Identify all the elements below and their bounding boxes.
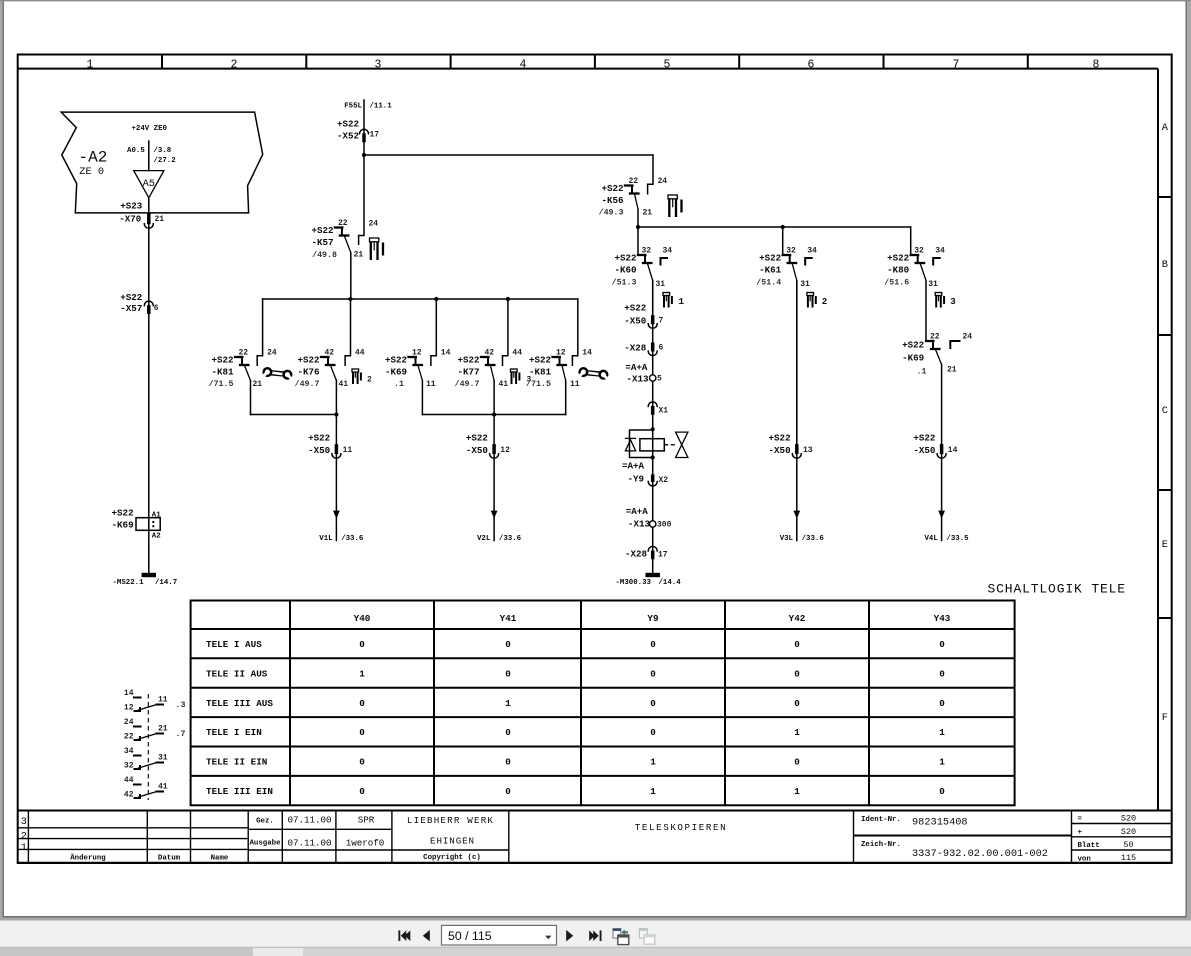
svg-text:07.11.00: 07.11.00 xyxy=(287,838,331,849)
svg-text:/49.3: /49.3 xyxy=(599,208,624,218)
svg-text:-X57: -X57 xyxy=(120,303,142,314)
svg-text:42: 42 xyxy=(124,791,134,800)
contact K57 xyxy=(311,155,378,299)
svg-text:0: 0 xyxy=(505,757,511,768)
svg-text:0: 0 xyxy=(359,757,365,768)
connector X70 pin 21 (+S23) xyxy=(119,201,164,229)
svg-text:-K69: -K69 xyxy=(385,367,407,378)
wire output leg V2L xyxy=(493,415,495,541)
svg-text:21: 21 xyxy=(253,380,263,389)
svg-text:/33.6: /33.6 xyxy=(499,535,522,543)
svg-text:41: 41 xyxy=(158,783,168,792)
svg-text:0: 0 xyxy=(359,698,365,709)
svg-text:21: 21 xyxy=(155,215,165,224)
wire output leg V3L xyxy=(796,281,798,541)
svg-text:0: 0 xyxy=(794,639,800,650)
svg-text:Zeich-Nr.: Zeich-Nr. xyxy=(861,841,901,849)
svg-text:-X50: -X50 xyxy=(308,445,330,456)
svg-text:+S22: +S22 xyxy=(759,253,781,264)
svg-text:Y42: Y42 xyxy=(789,613,806,624)
svg-text:44: 44 xyxy=(124,776,134,785)
svg-text:0: 0 xyxy=(939,639,945,650)
svg-text:11: 11 xyxy=(158,696,168,705)
svg-text:+S22: +S22 xyxy=(466,432,488,443)
svg-text:-K69: -K69 xyxy=(112,519,134,530)
svg-text:+S22: +S22 xyxy=(311,225,333,236)
signal arrow V3L xyxy=(780,511,825,543)
svg-text:31: 31 xyxy=(928,280,938,289)
svg-text:/3.8: /3.8 xyxy=(154,147,172,155)
junction node xyxy=(334,412,338,416)
svg-text:-K80: -K80 xyxy=(887,265,909,276)
svg-text:42: 42 xyxy=(485,349,495,358)
svg-text:14: 14 xyxy=(124,689,134,698)
svg-text:-K81: -K81 xyxy=(529,367,552,378)
svg-text:21: 21 xyxy=(947,366,957,375)
wire through coil K69 xyxy=(148,518,150,531)
taskbar strip xyxy=(0,948,1191,956)
svg-text:34: 34 xyxy=(935,247,945,256)
svg-text:TELE I EIN: TELE I EIN xyxy=(206,727,262,738)
junction node xyxy=(434,297,438,301)
svg-text:6: 6 xyxy=(154,304,159,313)
svg-text:/33.6: /33.6 xyxy=(341,535,364,543)
junction node xyxy=(362,153,366,157)
svg-text:21: 21 xyxy=(643,209,653,218)
contact K69 row xyxy=(385,299,451,415)
svg-text:2: 2 xyxy=(822,296,828,307)
svg-text:0: 0 xyxy=(794,668,800,679)
svg-text:0: 0 xyxy=(794,698,800,709)
svg-text:S20: S20 xyxy=(1121,814,1136,824)
svg-text:24: 24 xyxy=(658,177,668,186)
svg-text:LIEBHERR WERK: LIEBHERR WERK xyxy=(407,815,494,826)
row letters xyxy=(1162,122,1169,724)
svg-text:8: 8 xyxy=(1093,58,1100,71)
svg-text:-K57: -K57 xyxy=(311,237,333,248)
contact K56 xyxy=(599,155,668,227)
svg-text:3: 3 xyxy=(21,816,27,828)
svg-text:A5: A5 xyxy=(143,178,155,190)
svg-text:0: 0 xyxy=(794,757,800,768)
svg-text:115: 115 xyxy=(1121,853,1136,863)
svg-text:/11.1: /11.1 xyxy=(370,103,393,111)
svg-text:31: 31 xyxy=(158,754,168,763)
svg-text:Datum: Datum xyxy=(158,854,181,862)
cross-reference contact block xyxy=(124,689,186,800)
svg-text:34: 34 xyxy=(663,247,673,256)
signal arrow V1L xyxy=(319,511,364,543)
svg-text:1: 1 xyxy=(650,757,656,768)
svg-text:+S22: +S22 xyxy=(902,340,924,351)
svg-text:A: A xyxy=(1162,122,1169,134)
signal arrow V2L xyxy=(477,511,522,543)
svg-text:1: 1 xyxy=(939,757,945,768)
svg-text:Y9: Y9 xyxy=(647,613,659,624)
svg-text:+S22: +S22 xyxy=(913,432,935,443)
svg-text:22: 22 xyxy=(338,219,348,228)
solenoid coil Y9 xyxy=(640,429,664,457)
svg-text:-X50: -X50 xyxy=(466,445,488,456)
valve symbol Y9 xyxy=(664,432,688,457)
svg-text:0: 0 xyxy=(650,668,656,679)
connector X57 pin 6 (+S22) xyxy=(120,292,159,314)
svg-text:17: 17 xyxy=(370,131,380,140)
svg-text:-X50: -X50 xyxy=(624,315,646,326)
svg-text:1: 1 xyxy=(359,668,365,679)
svg-text:14: 14 xyxy=(441,349,451,358)
svg-text:+S22: +S22 xyxy=(624,302,646,313)
svg-text:31: 31 xyxy=(800,280,810,289)
svg-text:12: 12 xyxy=(556,349,566,358)
svg-text:Gez.: Gez. xyxy=(256,817,274,825)
signal arrow V4L xyxy=(924,511,969,543)
wire bus left group xyxy=(251,414,337,416)
svg-text:+S22: +S22 xyxy=(297,355,319,366)
svg-text:+24V ZE0: +24V ZE0 xyxy=(132,125,168,133)
svg-text:/71.5: /71.5 xyxy=(209,379,234,389)
svg-text:-X28: -X28 xyxy=(625,548,648,559)
svg-text:1: 1 xyxy=(679,296,685,307)
contact K77 xyxy=(455,299,523,415)
svg-text:/14.7: /14.7 xyxy=(155,579,177,587)
svg-text:A2: A2 xyxy=(152,532,161,540)
svg-text:34: 34 xyxy=(124,747,134,756)
svg-text:TELE III AUS: TELE III AUS xyxy=(206,698,273,709)
viewer toolbar xyxy=(0,918,1191,948)
svg-text:07.11.00: 07.11.00 xyxy=(287,815,331,826)
svg-text:+S22: +S22 xyxy=(614,253,636,264)
svg-text:S20: S20 xyxy=(1121,827,1136,837)
svg-text:+S22: +S22 xyxy=(337,119,359,130)
wire bus3 xyxy=(263,298,578,300)
junction node xyxy=(636,225,640,229)
logic table xyxy=(191,601,1015,806)
svg-text:300: 300 xyxy=(657,520,672,529)
svg-text:Änderung: Änderung xyxy=(70,853,106,862)
svg-text:0: 0 xyxy=(359,786,365,797)
svg-text:21: 21 xyxy=(354,251,364,260)
svg-text:+S23: +S23 xyxy=(120,201,143,212)
svg-text:1: 1 xyxy=(505,698,511,709)
svg-text:Y40: Y40 xyxy=(354,613,371,624)
svg-text:31: 31 xyxy=(656,280,666,289)
connector X28 pin 6 xyxy=(624,342,663,355)
svg-text:C: C xyxy=(1162,405,1168,417)
svg-text:32: 32 xyxy=(786,247,796,256)
last page button xyxy=(589,930,601,941)
svg-text:1: 1 xyxy=(87,58,94,71)
svg-text:0: 0 xyxy=(505,639,511,650)
svg-text:0: 0 xyxy=(939,786,945,797)
svg-text:1: 1 xyxy=(794,727,800,738)
svg-text:4: 4 xyxy=(520,58,527,71)
svg-text:A0.5: A0.5 xyxy=(127,147,145,155)
previous view button xyxy=(613,929,629,945)
first page button xyxy=(398,930,410,941)
svg-text:-M300.33: -M300.33 xyxy=(616,579,652,587)
svg-text:982315408: 982315408 xyxy=(912,816,968,828)
svg-text:Ausgabe: Ausgabe xyxy=(249,839,281,847)
svg-text:-X50: -X50 xyxy=(769,445,791,456)
svg-text:+S22: +S22 xyxy=(457,355,479,366)
svg-text:/51.6: /51.6 xyxy=(884,278,909,288)
svg-text:-X13: -X13 xyxy=(628,518,651,529)
svg-text:/49.7: /49.7 xyxy=(455,379,480,389)
ground M300.33 xyxy=(616,573,682,587)
actuator icon K57 xyxy=(370,238,384,260)
svg-text:=: = xyxy=(1078,816,1083,824)
svg-text:.3: .3 xyxy=(176,701,186,710)
svg-text:EHINGEN: EHINGEN xyxy=(430,836,475,847)
ground MS22.1 xyxy=(113,573,178,587)
svg-text:/51.4: /51.4 xyxy=(756,278,781,288)
connector X13 pin 5 (=A+A) xyxy=(625,362,662,384)
wire A5 output down left column xyxy=(148,198,150,518)
svg-text:2: 2 xyxy=(231,58,238,71)
svg-text:2: 2 xyxy=(367,376,372,385)
svg-text:TELESKOPIEREN: TELESKOPIEREN xyxy=(635,822,727,833)
connector X50 pin 14 xyxy=(913,432,957,458)
svg-text:50: 50 xyxy=(1123,840,1133,850)
svg-text:+S22: +S22 xyxy=(308,432,330,443)
connector X50 pin 11 xyxy=(308,432,352,458)
svg-text:Y43: Y43 xyxy=(934,613,951,624)
contact K60 xyxy=(612,227,673,315)
svg-text:-Y9: -Y9 xyxy=(627,474,644,485)
junction node xyxy=(651,455,655,459)
svg-text:21: 21 xyxy=(158,725,168,734)
svg-text:12: 12 xyxy=(124,704,134,713)
connector X50 pin 7 (+S22) xyxy=(624,302,663,328)
svg-text:TELE I AUS: TELE I AUS xyxy=(206,639,262,650)
svg-text:0: 0 xyxy=(939,668,945,679)
connector X28 pin 17 xyxy=(625,546,668,559)
page number combobox xyxy=(442,925,557,945)
svg-text:0: 0 xyxy=(650,698,656,709)
svg-text:11: 11 xyxy=(343,446,353,455)
wire output leg V1L xyxy=(335,415,337,541)
svg-text:3: 3 xyxy=(375,58,382,71)
svg-text:TELE III EIN: TELE III EIN xyxy=(206,786,273,797)
svg-text:von: von xyxy=(1078,855,1091,863)
svg-text:17: 17 xyxy=(658,550,668,559)
svg-text:E: E xyxy=(1162,539,1168,551)
svg-text:5: 5 xyxy=(664,58,671,71)
junction node xyxy=(781,225,785,229)
column numbers 1-8 xyxy=(87,58,1100,71)
svg-text:14: 14 xyxy=(948,446,958,455)
column header band xyxy=(18,55,1158,69)
svg-text:22: 22 xyxy=(239,349,249,358)
suppressor diode of Y9 xyxy=(625,430,653,458)
svg-text:Ident-Nr.: Ident-Nr. xyxy=(861,816,901,824)
svg-text:V1L: V1L xyxy=(319,535,333,543)
svg-text:F55L: F55L xyxy=(344,103,362,111)
svg-text:+S22: +S22 xyxy=(769,432,791,443)
svg-text:.7: .7 xyxy=(176,730,186,739)
svg-text:+S22: +S22 xyxy=(211,355,233,366)
svg-text:+S22: +S22 xyxy=(385,355,407,366)
actuator icon 1 xyxy=(663,293,685,308)
svg-text:+S22: +S22 xyxy=(112,507,134,518)
wire middle chain lower xyxy=(652,458,654,574)
svg-text:24: 24 xyxy=(267,349,277,358)
wire output leg V4L xyxy=(941,444,943,540)
PLC block A2 ZE 0 xyxy=(61,112,263,213)
relay coil K69 xyxy=(112,507,162,540)
wire middle chain upper xyxy=(652,281,654,430)
svg-text:1: 1 xyxy=(794,786,800,797)
connector X13 pin 300 (=A+A) xyxy=(626,506,672,529)
connector X50 pin 12 xyxy=(466,432,510,458)
svg-text:+: + xyxy=(1078,829,1083,837)
svg-text:24: 24 xyxy=(963,332,973,341)
svg-text:13: 13 xyxy=(803,446,813,455)
contact K80 xyxy=(884,227,945,341)
svg-text:24: 24 xyxy=(369,220,379,229)
svg-text:=A+A: =A+A xyxy=(622,461,645,472)
contact K76 xyxy=(295,299,365,415)
connector X52 pin 17 (+S22) xyxy=(337,119,379,143)
actuator icon 2 xyxy=(807,293,827,308)
junction node xyxy=(492,412,496,416)
svg-text:1werof0: 1werof0 xyxy=(346,838,385,849)
svg-text:32: 32 xyxy=(642,247,652,256)
next view button (disabled) xyxy=(639,929,654,945)
svg-text:0: 0 xyxy=(505,786,511,797)
junction node xyxy=(348,297,352,301)
svg-text:3: 3 xyxy=(950,296,956,307)
svg-text:ZE 0: ZE 0 xyxy=(79,166,104,178)
junction node xyxy=(506,297,510,301)
svg-text:0: 0 xyxy=(650,727,656,738)
svg-text:/33.6: /33.6 xyxy=(802,535,825,543)
svg-text:-K56: -K56 xyxy=(601,195,623,206)
svg-text:/27.2: /27.2 xyxy=(154,157,176,165)
svg-text:-X52: -X52 xyxy=(337,131,359,142)
svg-text:.1: .1 xyxy=(394,380,404,389)
svg-text:50 / 115: 50 / 115 xyxy=(448,929,492,943)
svg-text:32: 32 xyxy=(914,247,924,256)
svg-text:/33.5: /33.5 xyxy=(946,535,969,543)
svg-text:6: 6 xyxy=(659,343,664,352)
svg-text:11: 11 xyxy=(426,380,436,389)
svg-text:0: 0 xyxy=(505,668,511,679)
contact K81 left xyxy=(209,299,277,415)
svg-text:V4L: V4L xyxy=(924,535,938,543)
svg-text:11: 11 xyxy=(570,380,580,389)
svg-text:-MS22.1: -MS22.1 xyxy=(113,579,145,587)
title block xyxy=(18,811,1172,864)
wire coil K69 to ground xyxy=(148,530,150,573)
svg-text:-K81: -K81 xyxy=(211,367,234,378)
wire bus2 xyxy=(638,226,911,228)
svg-text:/49.7: /49.7 xyxy=(295,379,320,389)
svg-text:3337-932.02.00.001-002: 3337-932.02.00.001-002 xyxy=(912,848,1048,860)
svg-text:+S22: +S22 xyxy=(601,183,623,194)
svg-text:0: 0 xyxy=(359,727,365,738)
svg-text:-X70: -X70 xyxy=(119,214,141,225)
svg-text:V2L: V2L xyxy=(477,535,491,543)
svg-text:+S22: +S22 xyxy=(529,355,551,366)
svg-text:+S22: +S22 xyxy=(887,253,909,264)
svg-text:14: 14 xyxy=(582,349,592,358)
wire from +24V into amplifier A5 xyxy=(127,141,176,171)
svg-text:-K61: -K61 xyxy=(759,265,782,276)
svg-text:Copyright (c): Copyright (c) xyxy=(423,854,481,862)
svg-text:41: 41 xyxy=(499,380,509,389)
actuator icon K56 xyxy=(668,195,682,217)
svg-text:5: 5 xyxy=(657,375,662,384)
svg-text:41: 41 xyxy=(339,380,349,389)
wire bus1 xyxy=(364,154,653,156)
amplifier triangle A5 xyxy=(134,171,164,198)
svg-text:Name: Name xyxy=(211,854,229,862)
svg-text:22: 22 xyxy=(930,332,940,341)
svg-text:6: 6 xyxy=(808,58,815,71)
svg-text:-K76: -K76 xyxy=(297,367,319,378)
svg-text:1: 1 xyxy=(650,786,656,797)
previous page button xyxy=(423,930,430,941)
svg-text:44: 44 xyxy=(512,349,522,358)
actuator icon K76 2 xyxy=(352,369,372,385)
svg-text:2: 2 xyxy=(21,831,27,843)
svg-text:/51.3: /51.3 xyxy=(612,278,637,288)
wire bus right group xyxy=(422,414,565,416)
svg-text:Blatt: Blatt xyxy=(1078,842,1100,850)
connector Y9 X2 (=A+A) xyxy=(622,461,668,487)
contact K81 right xyxy=(526,299,592,415)
svg-text:/71.5: /71.5 xyxy=(526,379,551,389)
svg-text:Y41: Y41 xyxy=(500,613,517,624)
svg-text:TELE II AUS: TELE II AUS xyxy=(206,668,268,679)
svg-text:-K60: -K60 xyxy=(614,265,636,276)
svg-text:-A2: -A2 xyxy=(79,149,108,167)
wrench icon K81 left xyxy=(263,368,292,379)
connector X50 pin 13 xyxy=(769,432,813,458)
actuator icon K77 3 xyxy=(511,369,532,385)
svg-text:-X50: -X50 xyxy=(913,445,935,456)
svg-text:.1: .1 xyxy=(917,368,927,377)
svg-text:SPR: SPR xyxy=(358,815,375,826)
svg-text:A1: A1 xyxy=(152,511,161,519)
svg-text:0: 0 xyxy=(650,639,656,650)
svg-text:1: 1 xyxy=(939,727,945,738)
svg-text:-X28: -X28 xyxy=(624,342,647,353)
row letter band xyxy=(1158,69,1172,811)
next page button xyxy=(566,930,573,941)
svg-text:+S22: +S22 xyxy=(120,292,142,303)
svg-text:7: 7 xyxy=(953,58,960,71)
svg-text:22: 22 xyxy=(629,177,639,186)
connector X1 xyxy=(648,402,668,416)
contact K61 xyxy=(756,227,817,444)
svg-text:1: 1 xyxy=(21,842,27,854)
svg-text:32: 32 xyxy=(124,762,134,771)
svg-text:-X13: -X13 xyxy=(626,373,649,384)
wire F55L feeder xyxy=(344,100,392,155)
actuator icon 3 xyxy=(935,293,956,308)
svg-text:22: 22 xyxy=(124,733,134,742)
svg-text:SCHALTLOGIK TELE: SCHALTLOGIK TELE xyxy=(988,582,1126,597)
svg-text:B: B xyxy=(1162,259,1168,271)
svg-text:=A+A: =A+A xyxy=(626,506,649,517)
svg-text:0: 0 xyxy=(359,639,365,650)
svg-text:0: 0 xyxy=(505,727,511,738)
junction node xyxy=(651,427,655,431)
svg-text:/14.4: /14.4 xyxy=(659,579,682,587)
